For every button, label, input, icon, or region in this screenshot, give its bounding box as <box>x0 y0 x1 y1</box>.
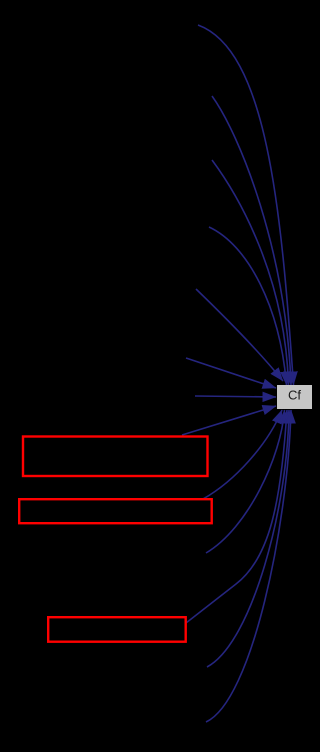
wire edge E7 <box>195 396 276 397</box>
node box1 (truncated, red) <box>23 437 208 477</box>
wire edge E4 <box>209 227 287 385</box>
node box3 (truncated, red) <box>48 617 186 642</box>
wire edge E13 <box>206 410 291 722</box>
wire edge E10 <box>206 410 285 553</box>
wire edge E1 <box>198 25 294 385</box>
wire edge E3 <box>212 160 289 385</box>
wire edge E11 <box>186 410 287 623</box>
wire edge E8 <box>182 406 276 435</box>
svg-text:Cf: Cf <box>288 388 301 403</box>
wire edge E9 <box>203 410 282 499</box>
wire edge E5 <box>196 289 283 381</box>
wire edge E2 <box>212 96 291 385</box>
wire edge E6 <box>186 358 276 388</box>
node Cf (current node, grey) <box>277 385 312 409</box>
wire edge E12 <box>207 410 289 667</box>
node box2 (truncated, red) <box>19 499 212 523</box>
